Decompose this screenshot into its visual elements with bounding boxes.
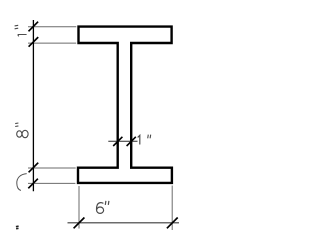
extension line bottom-flange top [28, 167, 76, 169]
tick at 6-inch right [167, 218, 178, 229]
label 6-inch : digit 6 [96, 203, 103, 210]
tiny cut-off glyph bottom-left [16, 226, 19, 229]
tick at bottom flange bottom [28, 179, 38, 189]
label 6-inch : inch marks [105, 201, 109, 205]
extension line top-flange top [28, 26, 76, 28]
extension line 6-inch right [171, 186, 173, 231]
label 1-inch (web) : inch marks [148, 135, 151, 139]
tick at web left [113, 137, 122, 146]
bottom dimension line [68, 222, 180, 224]
label 1-inch rotated (top flange) : digit 1 [18, 35, 27, 37]
web dimension line [108, 140, 137, 142]
tick at 6-inch left [74, 218, 85, 229]
tick at web right [127, 137, 136, 146]
tick at bottom flange top [29, 163, 39, 173]
label 1-inch (web) : digit 1 [138, 135, 140, 144]
extension line 6-inch left [78, 186, 80, 229]
extension line bottom-flange bottom [28, 182, 75, 184]
extension line top-flange bottom [28, 42, 76, 44]
tick at top flange bottom [29, 37, 39, 47]
leader arc bottom-left [17, 174, 27, 191]
label 1-inch rotated : inch marks [15, 25, 19, 29]
I-beam outline [78, 27, 172, 183]
label 8-inch rotated : inch marks [15, 123, 18, 127]
label 8-inch rotated : digit 8 [17, 131, 22, 137]
left vertical dimension line [32, 20, 34, 191]
tick at top flange top [29, 22, 39, 32]
